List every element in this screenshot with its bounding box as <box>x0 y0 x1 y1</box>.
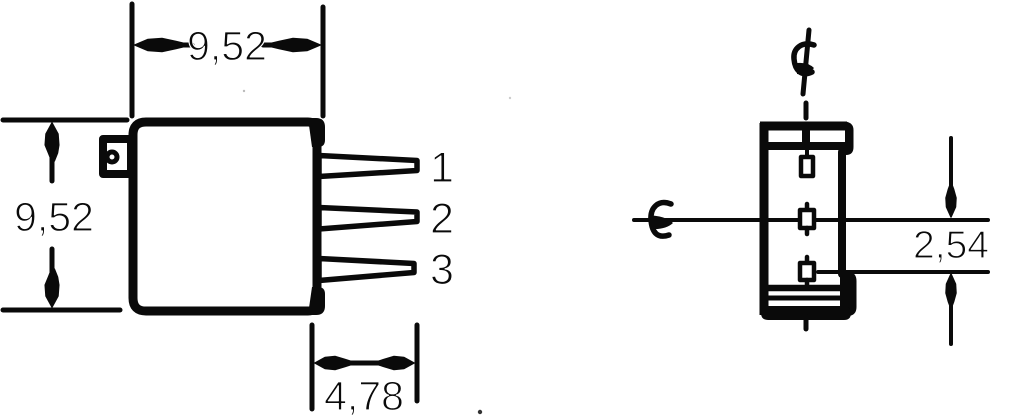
vertical centerline dash above body <box>804 103 809 118</box>
dimension 9,52 left: down arrow <box>45 249 59 307</box>
body bottom-right step <box>308 287 325 315</box>
pin 1 (front view) <box>319 156 417 177</box>
pin label 1 <box>433 152 452 182</box>
top pin cross-section <box>801 150 813 176</box>
side view top band lower line <box>766 142 848 150</box>
pin label 3 <box>432 254 452 284</box>
vertical centerline symbol (top) <box>794 30 814 94</box>
side view bottom band top line <box>768 285 842 292</box>
pin label 2 <box>432 203 452 233</box>
dimension 4,78: line with arrows <box>315 357 414 370</box>
adjuster tab on left side <box>103 139 131 174</box>
dimension label 9,52 (top) <box>189 31 265 65</box>
dimension 9,52 left: up arrow <box>45 123 59 181</box>
side view top band center divider <box>802 124 810 148</box>
horizontal centerline symbol <box>651 203 673 237</box>
dimension label 9,52 (left) <box>16 202 92 236</box>
side view body top edge <box>760 122 847 131</box>
pin 3 (front view) <box>319 259 414 281</box>
dimension 4,78: left extension line <box>310 325 315 409</box>
dimension 4,78: right extension line <box>415 325 420 401</box>
side view top-right cap <box>841 122 854 156</box>
dimension 9,52 top: left arrow <box>135 39 192 52</box>
dimension 2,54: upper arrow (down) <box>946 138 956 217</box>
pin 2 (front view) <box>319 208 417 230</box>
side view bottom edge band <box>761 306 851 320</box>
dimension label 2,54 <box>915 231 988 263</box>
dimension 9,52 top: right extension line <box>321 7 326 116</box>
side view right edge <box>838 152 846 274</box>
lower pin cross-section <box>800 257 814 286</box>
side view body left edge <box>760 123 769 315</box>
dimension 9,52 top: left extension line <box>130 4 135 116</box>
middle pin cross-section <box>800 204 814 234</box>
dimension label 4,78 <box>325 381 402 415</box>
dimension 9,52 left: bottom extension line <box>3 308 120 313</box>
dimension 2,54: lower reference line <box>818 270 988 274</box>
scan speckle dots <box>243 90 511 414</box>
body top-right step <box>308 118 325 147</box>
dimension 9,52 left: top extension line <box>3 118 127 123</box>
adjuster tab ring <box>107 152 117 162</box>
dimension 9,52 top: right arrow <box>263 39 320 52</box>
horizontal centerline with symbol (left) <box>634 218 988 222</box>
side view bottom band middle line <box>766 296 845 301</box>
vertical centerline dash below body <box>804 316 809 329</box>
component body (front view) <box>133 122 317 311</box>
dimension 2,54: lower arrow (up) <box>946 274 956 344</box>
side view bottom-right step <box>840 272 857 316</box>
